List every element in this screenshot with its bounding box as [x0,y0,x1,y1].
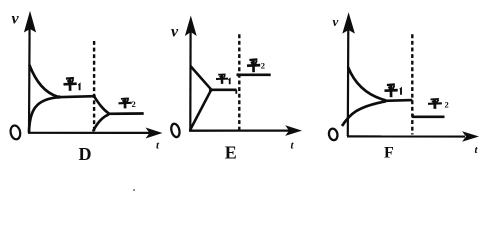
upper decay curve (graph D) [29,65,58,98]
svg-text:2: 2 [445,100,449,110]
label ping-2 (graph F) [428,99,442,109]
v-axis line (graph E) [189,30,192,130]
rough double-stroke on t-axis near origin (graph E) [190,130,237,132]
svg-text:v: v [12,11,20,28]
t-axis line (graph E) [189,130,290,132]
t-axis line (graph F) [347,135,465,137]
second rising curve after dashed line (graph D) [93,114,109,131]
svg-text:2: 2 [261,61,265,71]
v-axis line (graph F) [347,26,350,136]
label ping-2 (graph D) [119,98,132,108]
stray speck dot [133,189,135,191]
dashed vertical line (graph D) [93,41,95,131]
t-axis arrowhead (graph D) [146,128,163,139]
lower rising curve from origin (graph D) [29,97,59,132]
v-axis arrowhead (graph D) [24,11,36,33]
raised level segment v2 (graph E) [237,73,271,76]
upper straight decay line (graph E) [190,66,211,89]
subscript 1 of ping-1 (graph F) [400,89,401,95]
dashed vertical line (graph F) [411,34,413,134]
junction dot at dashed line (graph D) [92,94,96,98]
hook at end of level line (graph E) [235,90,237,94]
label ping-2 (graph E) [247,59,260,72]
terminal level line v1 (graph F) [385,99,412,102]
upper decay curve (graph F) [348,67,386,100]
terminal level line v1 (graph D) [58,96,95,97]
terminal level line v1 (graph E) [211,89,237,92]
origin label O (graph E) [170,123,181,138]
svg-text:t: t [156,140,160,152]
subscript 1 of ping-1 (graph D) [78,84,79,90]
lowered level segment v2 (graph F) [413,115,445,118]
lower straight rising line (graph E) [190,90,211,130]
origin label O (graph F) [328,128,339,141]
origin label O (graph D) [9,125,21,141]
svg-text:F: F [384,145,394,162]
junction dot of converging lines (graph E) [209,88,213,92]
svg-text:t: t [475,144,479,156]
second decay curve after dashed line (graph D) [94,96,109,113]
junction dot of converging curves (graph D) [57,95,61,99]
label ping-1 (graph F) [385,84,398,97]
lower rising curve (graph F) [342,101,386,126]
dashed vertical line (graph E) [238,34,240,130]
svg-text:D: D [79,144,92,164]
svg-text:2: 2 [132,99,136,109]
label ping-1 (graph E) [216,74,228,84]
svg-text:t: t [291,140,295,152]
terminal level line v2 (graph D) [109,112,144,115]
v-axis line (graph D) [28,25,31,133]
subscript 1 of ping-1 (graph E) [229,79,230,84]
label ping-1 (graph D) [64,78,77,91]
svg-text:v: v [333,14,339,29]
t-axis arrowhead (graph F) [462,131,479,142]
t-axis line (graph D) [28,132,150,134]
svg-text:v: v [171,24,179,41]
svg-text:E: E [225,142,237,162]
v-axis arrowhead (graph E) [185,16,197,37]
blob at start of v2 segment (graph E) [236,73,239,76]
t-axis arrowhead (graph E) [285,125,302,136]
v-axis arrowhead (graph F) [342,12,355,33]
tick at start of v2 segment (graph F) [412,114,414,118]
